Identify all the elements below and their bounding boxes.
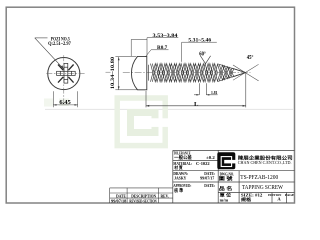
svg-text:APPROVED:: APPROVED: bbox=[173, 183, 191, 188]
svg-text:5.31~5.46: 5.31~5.46 bbox=[188, 38, 211, 43]
svg-text:REV.: REV. bbox=[161, 194, 169, 198]
svg-text:1.81: 1.81 bbox=[211, 90, 218, 95]
svg-text:99/07/18: 99/07/18 bbox=[111, 198, 126, 203]
svg-text:DATE:: DATE: bbox=[204, 183, 215, 188]
svg-text:材 質: 材 質 bbox=[173, 164, 183, 171]
svg-text:99/07/17: 99/07/17 bbox=[200, 175, 214, 180]
svg-text:6.45: 6.45 bbox=[59, 99, 70, 106]
svg-text:Q:2.51~2.97: Q:2.51~2.97 bbox=[48, 41, 71, 47]
svg-text:C-1022: C-1022 bbox=[196, 161, 210, 166]
svg-text:核 準: 核 準 bbox=[174, 187, 183, 194]
svg-text:PAGE: PAGE bbox=[285, 193, 295, 197]
svg-text:DWG.NO.: DWG.NO. bbox=[220, 172, 235, 176]
svg-text:45°: 45° bbox=[247, 54, 254, 61]
svg-text:±0.2: ±0.2 bbox=[206, 155, 215, 160]
svg-text:TS-PFZAB-1200: TS-PFZAB-1200 bbox=[240, 174, 278, 181]
svg-text:R0.7: R0.7 bbox=[157, 45, 167, 51]
svg-text:一般公差: 一般公差 bbox=[174, 154, 192, 161]
svg-text:10.34~10.80: 10.34~10.80 bbox=[110, 57, 116, 90]
svg-text:REVISED-SECTION: REVISED-SECTION bbox=[129, 199, 156, 203]
svg-text:圖 號: 圖 號 bbox=[219, 175, 233, 182]
svg-text:JASKY: JASKY bbox=[174, 175, 186, 180]
svg-text:m/m: m/m bbox=[220, 198, 229, 202]
svg-text:60°: 60° bbox=[199, 51, 206, 58]
svg-text:TAPPING SCREW: TAPPING SCREW bbox=[242, 185, 283, 191]
svg-text:規格: 規格 bbox=[241, 196, 252, 203]
svg-text:品 名: 品 名 bbox=[219, 185, 233, 192]
svg-text:3.53~3.84: 3.53~3.84 bbox=[153, 34, 179, 39]
svg-text:L: L bbox=[194, 101, 199, 108]
svg-text:DESCRIPTION: DESCRIPTION bbox=[131, 194, 156, 198]
